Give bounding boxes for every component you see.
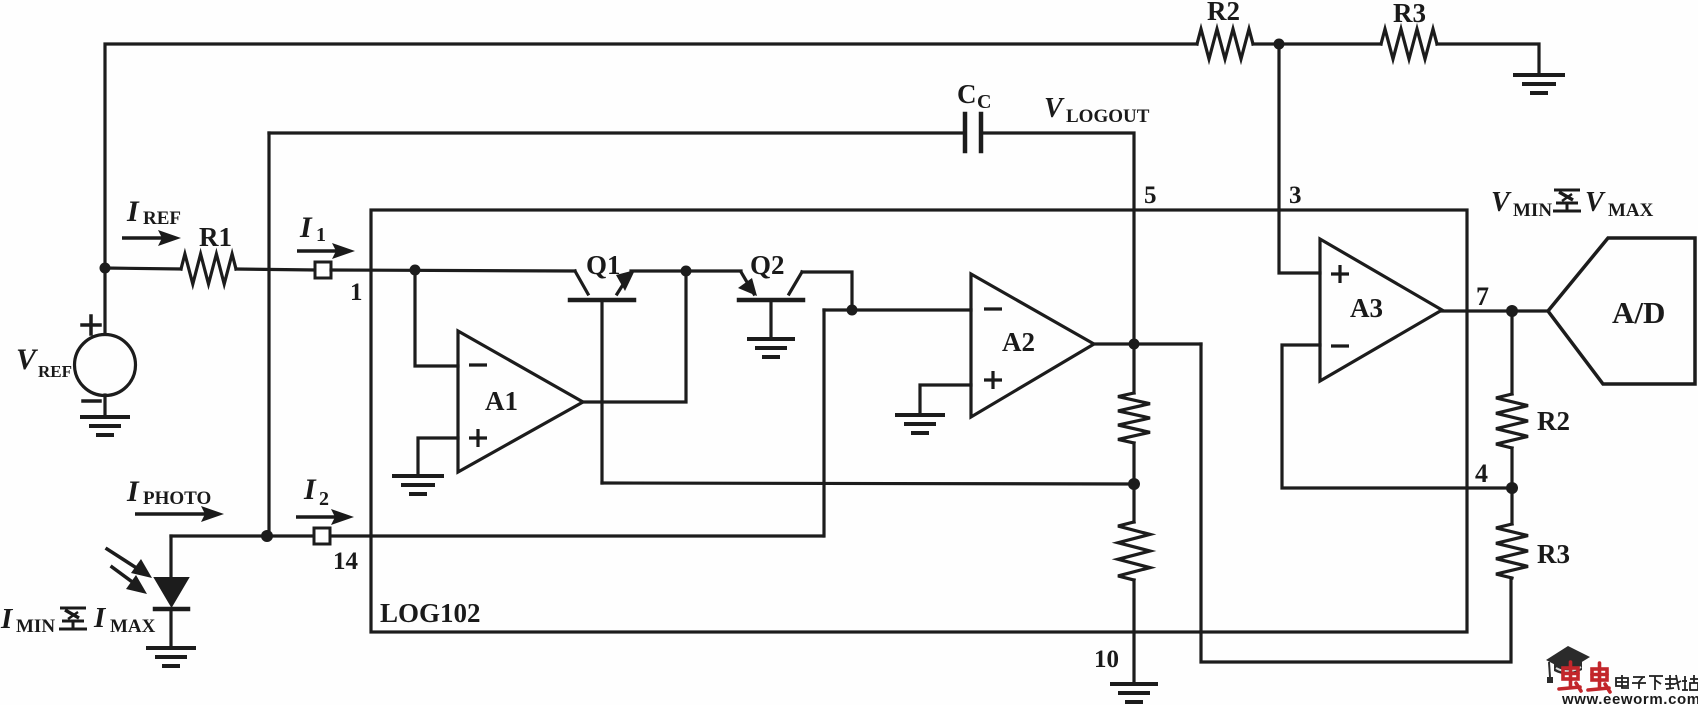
internal resistor upper (unlabelled)	[1118, 393, 1150, 443]
wire photodiode to ground	[169, 609, 172, 647]
transistor Q2 emitter slant with arrow	[741, 272, 754, 294]
op-amp A1 minus symbol	[469, 363, 487, 366]
svg-text:V: V	[1585, 187, 1606, 218]
svg-text:REF: REF	[143, 208, 181, 229]
svg-text:MIN: MIN	[16, 616, 55, 637]
svg-text:3: 3	[1289, 182, 1302, 209]
wire A1 inverting input	[415, 270, 458, 366]
op-amp A1 plus symbol	[469, 436, 487, 439]
svg-text:R2: R2	[1207, 0, 1240, 26]
svg-text:I: I	[126, 475, 140, 508]
wire R2 to R3	[1253, 42, 1381, 45]
ground (photodiode)	[148, 646, 194, 650]
svg-text:www.eeworm.com: www.eeworm.com	[1561, 691, 1698, 705]
svg-text:LOG102: LOG102	[380, 598, 481, 628]
svg-text:LOGOUT: LOGOUT	[1066, 106, 1150, 127]
ground (top right, after R3)	[1515, 73, 1563, 77]
ground (A1 non-inverting input)	[394, 474, 442, 478]
wire divider tap to Q1 base	[602, 483, 1134, 484]
node A2 inverting junction dot	[847, 305, 858, 316]
wire Q1 base down	[600, 300, 603, 483]
current arrow IPHOTO	[135, 512, 209, 516]
ground (pin 10)	[1112, 682, 1156, 686]
svg-text:I: I	[0, 603, 14, 635]
node Vref/R1 junction dot	[100, 263, 111, 274]
svg-text:MAX: MAX	[1608, 200, 1654, 221]
character zhi (to) between VMIN and VMAX	[1553, 190, 1581, 211]
A/D converter pentagon	[1548, 238, 1695, 384]
photodiode D1 cathode bar	[155, 607, 188, 612]
voltage source VREF circle	[75, 335, 136, 396]
wire A1 output up to Q1 emitter rail	[583, 271, 686, 402]
wire node4 to R3 right	[1510, 488, 1513, 524]
op-amp A2 plus symbol	[984, 378, 1002, 381]
node Q1/Q2 rail junction dot	[681, 266, 692, 277]
wire node3 down to A3 + input	[1279, 44, 1320, 273]
wire Vref node down to source	[103, 268, 106, 334]
node A1 inverting input junction dot	[410, 265, 421, 276]
svg-text:V: V	[1491, 187, 1512, 218]
photodiode D1 triangle	[155, 578, 188, 606]
wire VREF to ground	[103, 395, 106, 416]
svg-text:10: 10	[1094, 646, 1119, 673]
ground (Q2 base)	[749, 337, 793, 341]
minus sign of VREF	[83, 399, 100, 403]
svg-text:R1: R1	[199, 222, 232, 252]
wire Q2 base to ground	[769, 300, 772, 338]
svg-text:4: 4	[1475, 459, 1488, 488]
svg-text:R2: R2	[1537, 406, 1570, 436]
ground (below VREF)	[82, 415, 128, 419]
svg-text:MAX: MAX	[110, 616, 156, 637]
wire top rail from Vref node to R2	[105, 44, 1197, 268]
wire pin1 into LOG102 to Q1	[331, 270, 575, 271]
transistor Q2 collector slant	[789, 272, 802, 294]
capacitor Cc plates	[963, 114, 968, 151]
plus sign of VREF	[82, 323, 100, 327]
op-amp A2 triangle	[971, 274, 1094, 417]
svg-text:I: I	[126, 195, 140, 228]
watermark chongchong red characters	[1559, 662, 1610, 692]
op-amp A1 triangle	[458, 331, 583, 472]
svg-text:C: C	[977, 91, 991, 113]
pin 14 terminal square	[314, 528, 330, 544]
svg-text:7: 7	[1476, 282, 1489, 311]
wire node7 down to R2 right	[1510, 311, 1513, 394]
resistor R3 (right, vertical)	[1496, 524, 1528, 578]
op-amp A3 triangle	[1320, 239, 1442, 381]
svg-text:R3: R3	[1393, 0, 1426, 28]
svg-text:A3: A3	[1350, 293, 1383, 323]
svg-text:V: V	[1044, 93, 1065, 124]
svg-text:5: 5	[1144, 182, 1157, 209]
internal resistor lower (unlabelled)	[1118, 522, 1150, 580]
svg-text:A/D: A/D	[1612, 295, 1665, 330]
resistor R1	[181, 254, 236, 284]
current arrow I1	[297, 249, 340, 253]
wire Q1 emitter rail to Q2	[631, 269, 741, 272]
node 4 junction dot	[1506, 482, 1518, 494]
svg-text:1: 1	[316, 224, 326, 246]
svg-text:Q2: Q2	[750, 250, 785, 280]
wire A2 out to internal resistor	[1132, 344, 1135, 393]
wire riser from pin14 line up to A2 inverting node	[822, 310, 825, 536]
svg-text:I: I	[303, 473, 317, 506]
light arrow 2 into photodiode	[112, 567, 131, 581]
wire A2 + input to ground	[920, 385, 971, 414]
svg-text:MIN: MIN	[1513, 200, 1552, 221]
node photodiode/Cc junction dot	[261, 530, 273, 542]
light arrow 1 into photodiode	[107, 549, 135, 567]
wire A2 output to bottom of right R3	[1201, 344, 1511, 662]
watermark dianzi xiazaizhan characters	[1616, 675, 1698, 690]
wire between internal resistors	[1132, 443, 1135, 522]
watermark graduation cap	[1546, 646, 1590, 683]
node 7 junction dot	[1506, 305, 1518, 317]
op-amp A3 plus symbol	[1331, 272, 1349, 275]
wire pin14 line from photodiode to riser	[171, 534, 823, 537]
svg-text:V: V	[16, 343, 39, 376]
current arrow I2	[296, 515, 339, 519]
transistor Q1 emitter slant with arrow	[617, 272, 631, 294]
wire A3 output to A/D	[1442, 309, 1548, 312]
svg-text:R3: R3	[1537, 539, 1570, 569]
node divider tap junction dot	[1128, 478, 1140, 490]
wire A1 + input to ground	[418, 438, 458, 475]
current arrow IREF	[122, 236, 166, 240]
svg-text:14: 14	[333, 548, 359, 575]
svg-text:A1: A1	[485, 386, 518, 416]
svg-text:2: 2	[319, 488, 329, 510]
svg-text:C: C	[957, 79, 977, 109]
node pin5/A2out junction dot	[1129, 339, 1140, 350]
resistor R2 (right, vertical)	[1496, 394, 1528, 448]
pin 1 terminal square	[315, 262, 331, 278]
character zhi (to) between IMIN and IMAX	[59, 608, 87, 629]
wire R1 to pin 1 square	[236, 269, 315, 270]
svg-text:I: I	[93, 602, 107, 634]
resistor R2 (top)	[1197, 29, 1253, 59]
wire A3 inverting feedback	[1282, 345, 1512, 488]
wire Q2 collector to A2 inverting node	[802, 272, 852, 310]
node 3 junction dot on top rail	[1274, 39, 1285, 50]
wire Cc right segment to pin 5	[983, 133, 1134, 344]
wire Cc left segment	[269, 131, 963, 134]
svg-text:PHOTO: PHOTO	[143, 488, 211, 509]
wire Vref node to R1	[105, 268, 181, 269]
svg-text:A2: A2	[1002, 327, 1035, 357]
transistor Q2 base bar	[739, 298, 803, 303]
transistor Q1 collector slant	[575, 271, 588, 294]
wire R2 right to node 4	[1510, 448, 1513, 488]
LOG102 package box	[371, 210, 1467, 632]
op-amp A2 minus symbol	[984, 307, 1002, 310]
svg-text:1: 1	[350, 279, 363, 306]
svg-text:I: I	[299, 211, 313, 244]
wire Cc feedback riser	[267, 133, 270, 536]
svg-text:REF: REF	[38, 362, 72, 381]
resistor R3 (top)	[1381, 29, 1437, 59]
svg-text:Q1: Q1	[586, 250, 621, 280]
wire A2 inverting input	[824, 308, 971, 311]
wire R3 to ground	[1437, 44, 1539, 74]
wire photodiode anode	[169, 536, 172, 578]
op-amp A3 minus symbol	[1331, 344, 1349, 347]
wire A2 output	[1094, 342, 1201, 345]
ground (A2 non-inverting input)	[897, 413, 943, 417]
transistor Q1 base bar	[570, 298, 634, 303]
wire pin 10 to ground	[1132, 580, 1135, 683]
